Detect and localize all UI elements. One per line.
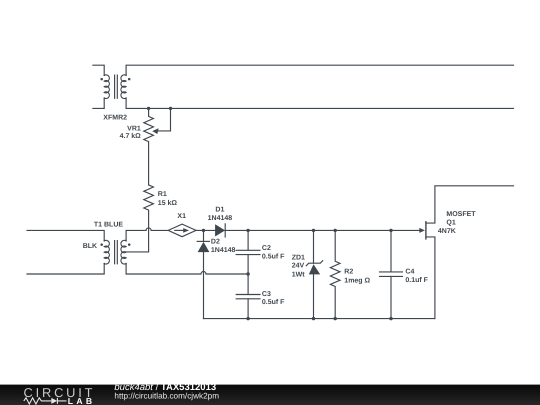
diode D2 triangle (198, 242, 210, 252)
wire top rail A (126, 65, 513, 75)
junction dot rail B wiper (169, 107, 172, 110)
transformer XFMR2 core (115, 75, 118, 98)
svg-text:D2: D2 (211, 239, 220, 246)
MOSFET Q1 drain lead (426, 186, 514, 223)
junction dot ZD1 top (312, 229, 315, 232)
diode D1 triangle (215, 224, 225, 236)
svg-text:24V: 24V (292, 263, 305, 270)
svg-text:BLK: BLK (83, 243, 97, 250)
diode D2 cathode bar (197, 240, 209, 242)
diode D1 cathode bar (224, 224, 226, 237)
capacitor C2 top lead (247, 230, 249, 250)
svg-text:1N4148: 1N4148 (208, 215, 233, 222)
svg-text:MOSFET: MOSFET (446, 211, 476, 218)
svg-text:C2: C2 (262, 245, 271, 252)
transformer XFMR2 primary coil (104, 75, 109, 99)
T1 secondary polarity dot (128, 243, 131, 246)
wire XFMR2 primary top stub (93, 65, 104, 75)
X1 arrowhead (183, 228, 189, 233)
svg-text:1N4148: 1N4148 (211, 247, 236, 254)
zener ZD1 top lead (313, 230, 315, 263)
capacitor C3 top lead (247, 274, 249, 295)
capacitor C4 top lead (390, 230, 392, 272)
wire T1 primary top stub (27, 230, 104, 241)
svg-text:D1: D1 (215, 207, 224, 214)
capacitor C2 plates (236, 250, 260, 254)
svg-text:C4: C4 (405, 269, 414, 276)
wire XFMR2 primary bottom stub (93, 98, 104, 108)
svg-text:VR1: VR1 (127, 125, 141, 132)
junction dot rail B VR1 (147, 107, 150, 110)
wire bottom rail (204, 318, 435, 320)
resistor R1 body (126, 185, 153, 252)
junction dot C4 top (389, 229, 392, 232)
resistor R2 body (330, 230, 340, 318)
CircuitLab logo squiggle resistor and diode (24, 398, 67, 404)
junction dot C2 C3 node (246, 272, 249, 275)
current source X1 arrow line (175, 229, 183, 231)
wire T1 primary bottom stub (27, 264, 104, 275)
capacitor C4 plates (380, 272, 403, 277)
svg-text:R2: R2 (344, 268, 353, 275)
svg-text:4.7 kΩ: 4.7 kΩ (120, 132, 142, 140)
potentiometer VR1 body (144, 108, 154, 184)
current source X1 diamond (168, 224, 196, 237)
zener ZD1 bottom lead (313, 274, 315, 318)
capacitor C3 plates (236, 295, 260, 299)
diode D2 anode wire (203, 230, 205, 241)
svg-text:R1: R1 (158, 191, 167, 198)
zener ZD1 triangle (309, 264, 320, 274)
wire T1 secondary bottom with hop over D2 (126, 264, 248, 275)
junction dot C3 bottom (246, 317, 249, 320)
svg-text:C3: C3 (262, 291, 271, 298)
VR1 wiper arrowhead (152, 128, 158, 134)
XFMR2 secondary polarity dot (128, 78, 131, 81)
XFMR2 primary polarity dot (100, 78, 103, 81)
junction dot ZD1 bottom (312, 317, 315, 320)
svg-text:X1: X1 (177, 213, 186, 220)
junction dot D2 top (202, 229, 205, 232)
svg-text:http://circuitlab.com/cjwk2pm: http://circuitlab.com/cjwk2pm (114, 391, 219, 400)
MOSFET Q1 gate arrowhead (419, 228, 425, 233)
svg-text:4N7K: 4N7K (438, 228, 456, 235)
potentiometer VR1 wiper wire (158, 108, 171, 130)
svg-text:0.1uf F: 0.1uf F (405, 276, 428, 284)
svg-text:1Wt: 1Wt (292, 271, 306, 278)
transformer T1 secondary coil (121, 240, 126, 264)
MOSFET Q1 source lead (426, 237, 435, 319)
svg-text:Q1: Q1 (446, 219, 455, 226)
wire X1 to D1 (195, 229, 215, 231)
wire T1 secondary top to X1 with hop (126, 228, 168, 241)
svg-text:XFMR2: XFMR2 (103, 114, 127, 121)
capacitor C4 bottom lead (390, 276, 392, 318)
wire rail B (126, 98, 513, 108)
transformer T1 primary coil (104, 240, 109, 264)
svg-text:1meg Ω: 1meg Ω (344, 278, 370, 285)
svg-text:0.5uf F: 0.5uf F (262, 252, 285, 260)
svg-text:LAB: LAB (68, 396, 96, 405)
junction dot C4 bottom (389, 317, 392, 320)
T1 primary polarity dot (100, 243, 103, 246)
svg-text:ZD1: ZD1 (292, 254, 305, 261)
transformer T1 core (115, 241, 118, 264)
capacitor C3 bottom lead (247, 299, 249, 319)
svg-text:15 kΩ: 15 kΩ (158, 199, 178, 207)
junction dot R2 bottom (334, 317, 337, 320)
MOSFET Q1 gate bar (425, 222, 427, 239)
junction dot R2 top (334, 229, 337, 232)
svg-text:T1 BLUE: T1 BLUE (94, 221, 124, 228)
capacitor C2 bottom lead (247, 255, 249, 274)
wire D1 to MOSFET gate node (225, 229, 420, 231)
transformer XFMR2 secondary coil (121, 75, 126, 99)
svg-text:0.5uf F: 0.5uf F (262, 298, 285, 306)
junction dot C2 top (246, 229, 249, 232)
diode D2 bottom lead (203, 252, 205, 319)
zener ZD1 cathode bar with tails (306, 261, 322, 266)
